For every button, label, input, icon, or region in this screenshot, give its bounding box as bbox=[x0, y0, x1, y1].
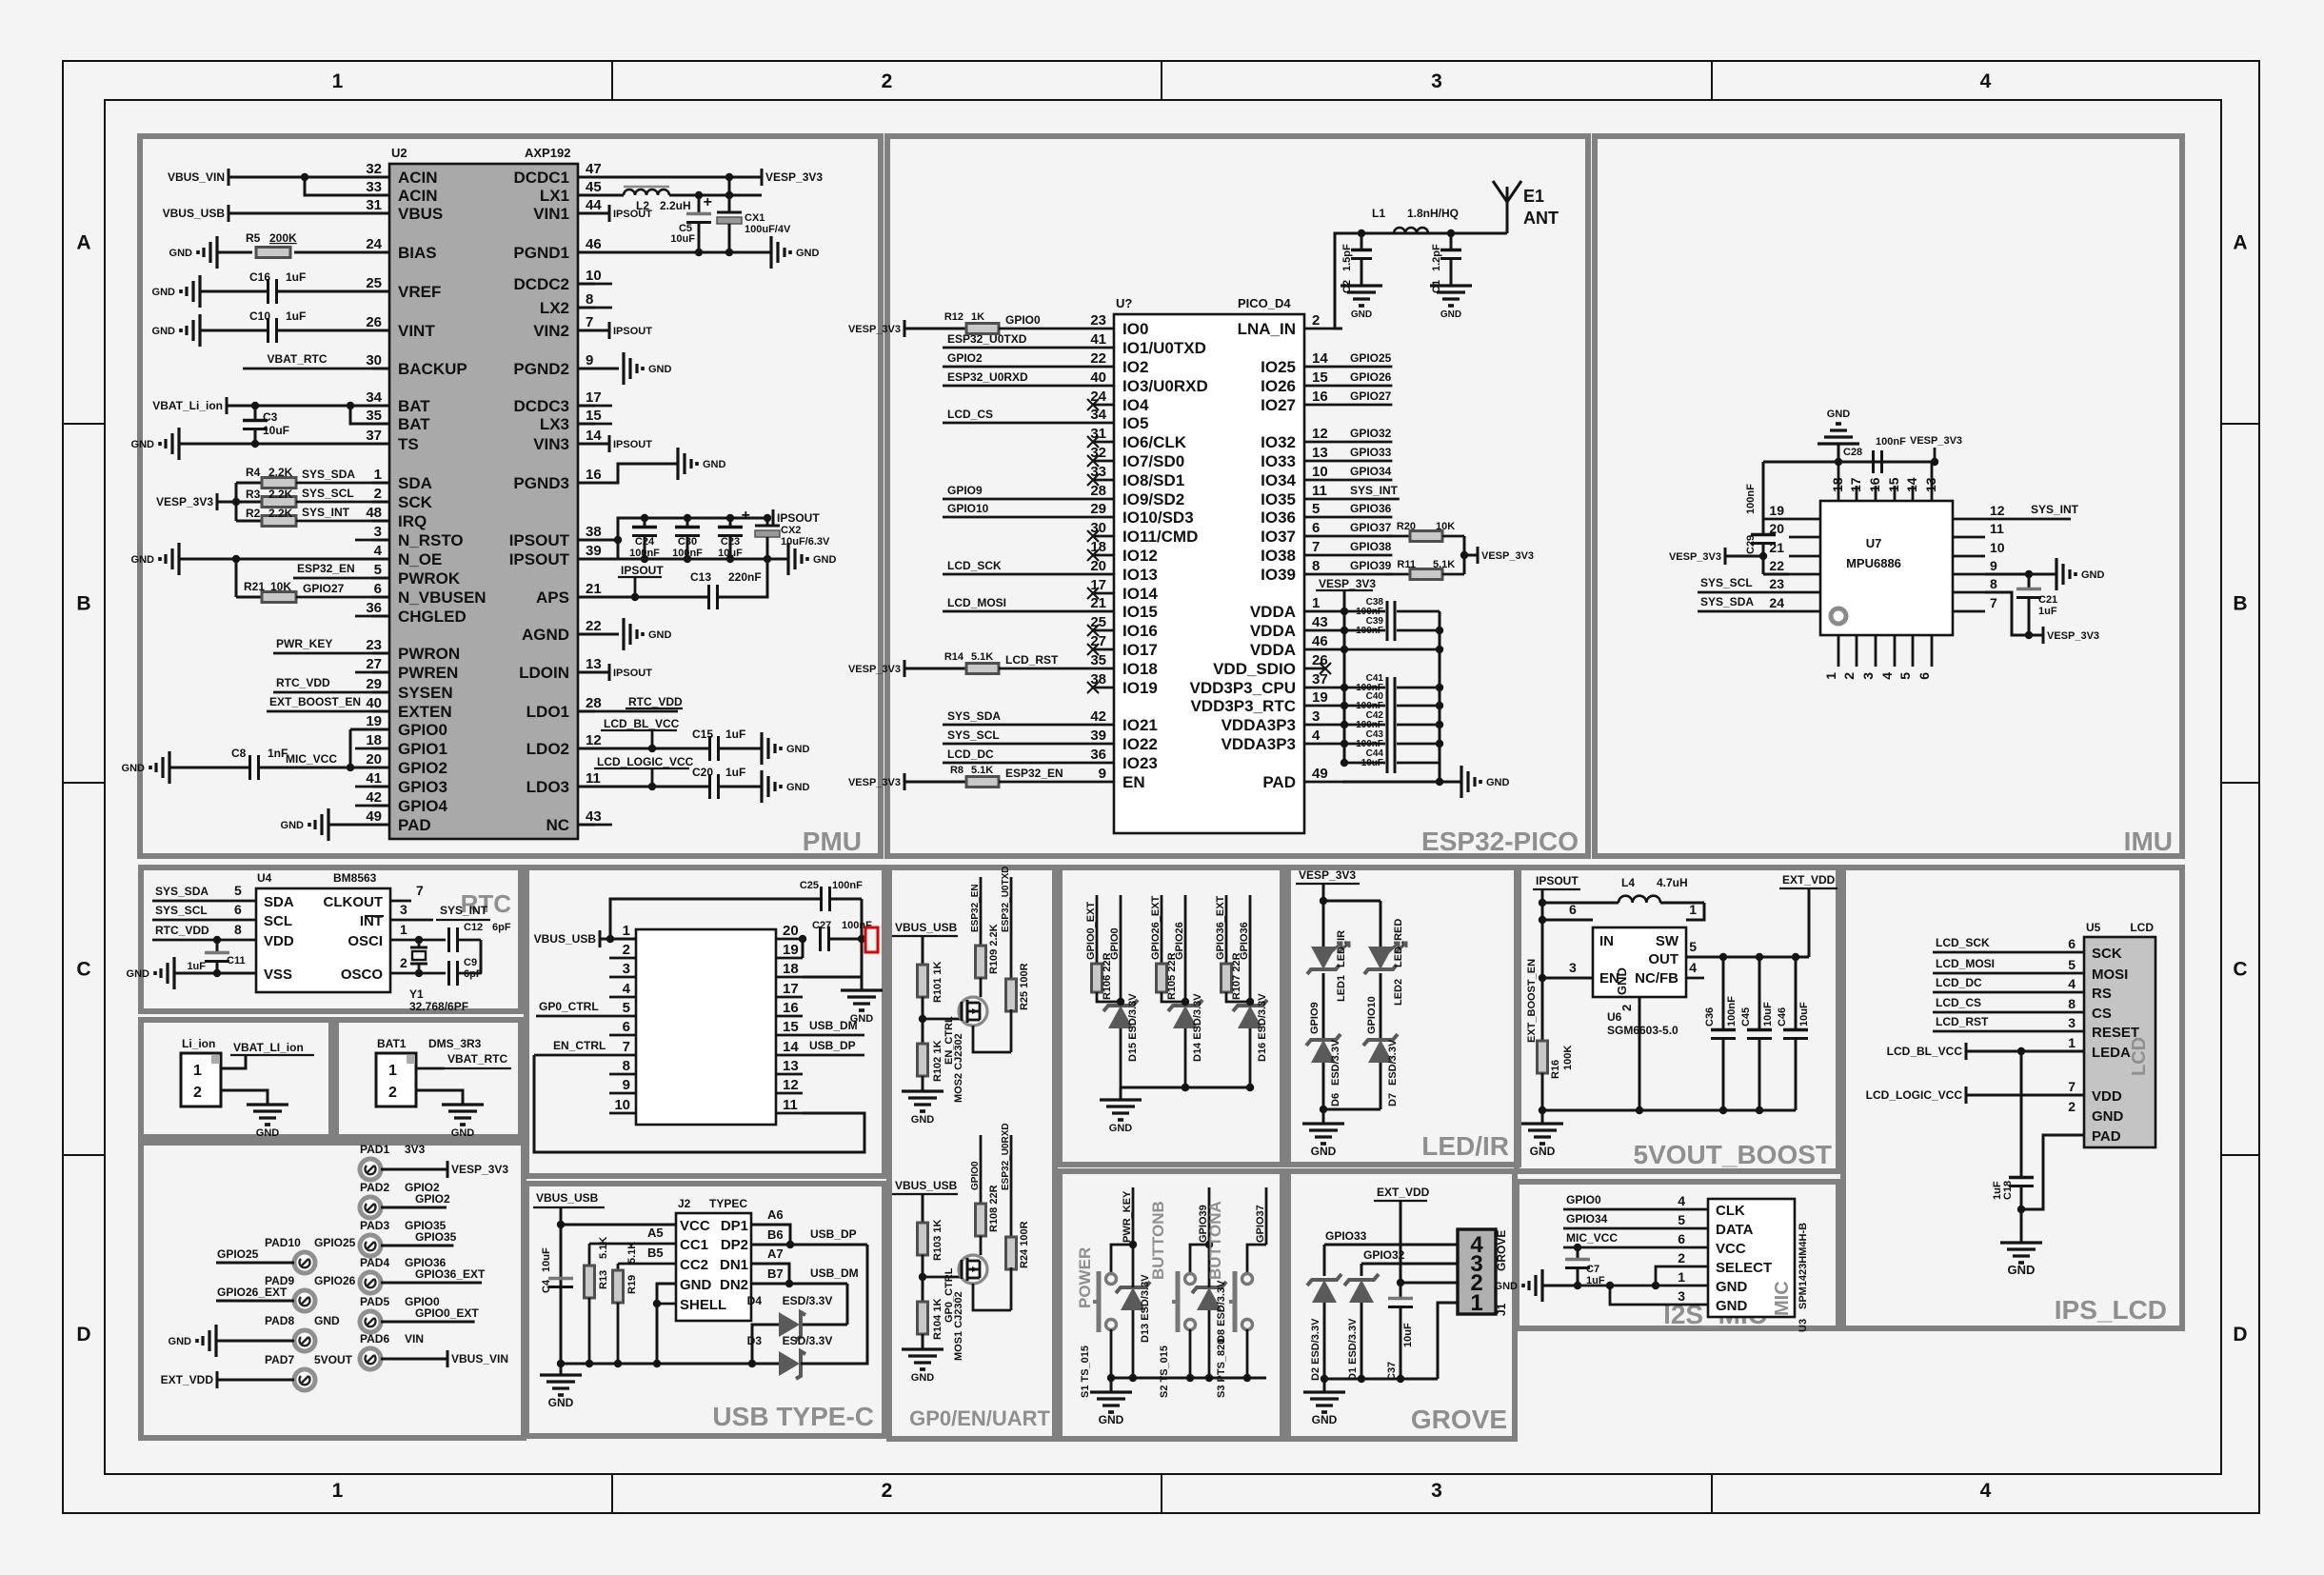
wire gnd to R5 bbox=[217, 251, 252, 254]
svg-text:R101 1K: R101 1K bbox=[932, 962, 944, 1003]
svg-text:LDO2: LDO2 bbox=[526, 740, 569, 758]
svg-text:2: 2 bbox=[1312, 312, 1320, 329]
capacitor C23 10uF bbox=[729, 518, 732, 527]
svg-text:12: 12 bbox=[783, 1077, 799, 1093]
svg-text:12: 12 bbox=[586, 732, 602, 748]
svg-text:10uF: 10uF bbox=[1402, 1323, 1414, 1347]
svg-text:30: 30 bbox=[366, 352, 382, 369]
svg-text:C36: C36 bbox=[1704, 1007, 1716, 1027]
svg-text:SYS_INT: SYS_INT bbox=[2031, 503, 2079, 516]
svg-text:GND: GND bbox=[1311, 1145, 1337, 1158]
svg-text:38: 38 bbox=[1090, 671, 1106, 688]
wire LDO2 row bbox=[595, 748, 709, 750]
svg-text:3: 3 bbox=[1431, 1480, 1442, 1502]
U2 pin 49 PAD bbox=[372, 824, 389, 827]
svg-text:PMU: PMU bbox=[803, 827, 862, 856]
capacitor CX1 100uF/4V bbox=[728, 195, 731, 211]
U2 pin 3 N_RSTO bbox=[372, 539, 389, 542]
U2 pin10 stub bbox=[595, 283, 612, 286]
svg-text:B6: B6 bbox=[767, 1227, 784, 1242]
J1 pin 3 bbox=[1446, 1263, 1458, 1266]
svg-text:IPSOUT: IPSOUT bbox=[613, 326, 652, 337]
svg-text:2: 2 bbox=[374, 486, 382, 502]
svg-text:26: 26 bbox=[366, 314, 382, 330]
svg-text:PWRON: PWRON bbox=[398, 645, 460, 663]
svg-text:MIC_VCC: MIC_VCC bbox=[1566, 1231, 1618, 1245]
svg-text:20: 20 bbox=[366, 751, 382, 768]
svg-text:C: C bbox=[2233, 959, 2247, 981]
Buttons module box bbox=[1060, 1171, 1282, 1439]
U2 pin 16 PGND3 bbox=[578, 482, 595, 485]
ground at USB TYPE-C bbox=[560, 1364, 563, 1375]
capacitor C11 1uF bbox=[216, 940, 219, 952]
svg-text:PGND1: PGND1 bbox=[513, 244, 569, 262]
svg-text:GND: GND bbox=[680, 1277, 712, 1293]
net VBUS_VIN flag bbox=[447, 1350, 449, 1367]
wire IPSOUT to IN pin6 bbox=[1542, 919, 1593, 922]
svg-text:GPIO36_EXT: GPIO36_EXT bbox=[415, 1267, 486, 1281]
svg-text:D4: D4 bbox=[747, 1294, 763, 1307]
svg-text:VDD3P3_RTC: VDD3P3_RTC bbox=[1190, 697, 1296, 715]
svg-text:20: 20 bbox=[783, 923, 799, 939]
svg-text:GND: GND bbox=[1827, 409, 1851, 420]
svg-text:GPIO2: GPIO2 bbox=[415, 1192, 450, 1206]
svg-text:LCD_BL_VCC: LCD_BL_VCC bbox=[604, 717, 680, 730]
svg-text:VDD: VDD bbox=[264, 933, 294, 949]
wire PAD6 to VBUS_VIN bbox=[381, 1358, 447, 1361]
svg-text:ACIN: ACIN bbox=[398, 169, 438, 187]
svg-text:15: 15 bbox=[586, 408, 602, 424]
svg-text:IPSOUT: IPSOUT bbox=[509, 550, 570, 568]
svg-text:GPIO32: GPIO32 bbox=[1350, 427, 1392, 440]
capacitor C36 100nF bbox=[1711, 1028, 1736, 1031]
svg-text:LED1: LED1 bbox=[1336, 975, 1347, 1002]
svg-text:DCDC2: DCDC2 bbox=[513, 275, 569, 293]
diode D4 ESD/3.3V bbox=[801, 1324, 847, 1326]
wire right rail vertical bbox=[861, 899, 864, 977]
svg-text:GND: GND bbox=[169, 1336, 192, 1347]
svg-text:IO38: IO38 bbox=[1261, 547, 1296, 565]
wire divider vertical (EN_CTRL) bbox=[922, 936, 924, 967]
svg-text:IO7/SD0: IO7/SD0 bbox=[1122, 452, 1184, 470]
svg-text:5.1K: 5.1K bbox=[1433, 559, 1455, 570]
wire gnd to C10 bbox=[200, 329, 268, 332]
wire PAD7 to EXT_VDD bbox=[217, 1379, 294, 1382]
transistor MOS2 CJ2302 bbox=[959, 997, 987, 1026]
svg-text:5: 5 bbox=[1312, 501, 1320, 517]
IC U2 AXP192 body bbox=[389, 164, 578, 839]
svg-text:USB_DP: USB_DP bbox=[809, 1039, 856, 1052]
svg-text:24: 24 bbox=[1769, 595, 1784, 610]
U2 pin 36 CHGLED bbox=[372, 615, 389, 618]
LED LED2 LED_RED bbox=[1368, 947, 1393, 969]
diode D2 ESD/3.3V bbox=[1312, 1280, 1337, 1303]
svg-text:1: 1 bbox=[332, 1480, 344, 1502]
wire C27 to right rail bbox=[829, 938, 862, 941]
svg-text:A7: A7 bbox=[767, 1246, 784, 1261]
net VBAT_Li_ion flag bbox=[226, 397, 228, 414]
net LCD_BL_VCC flag bbox=[1965, 1043, 1968, 1060]
svg-text:100nF: 100nF bbox=[1726, 996, 1738, 1027]
svg-text:100nF: 100nF bbox=[832, 880, 863, 891]
svg-text:10: 10 bbox=[586, 268, 602, 284]
diode D13 ESD/3.3V bbox=[1121, 1287, 1145, 1310]
antenna E1 bbox=[1506, 202, 1509, 233]
svg-text:2: 2 bbox=[1678, 1250, 1685, 1266]
svg-text:B: B bbox=[2233, 593, 2247, 615]
svg-text:44: 44 bbox=[586, 197, 602, 213]
svg-text:1uF: 1uF bbox=[1992, 1181, 2003, 1200]
resistor R2 2.2K bbox=[262, 516, 296, 527]
wire VDDA row 642 bbox=[1344, 610, 1385, 613]
svg-text:L4: L4 bbox=[1621, 876, 1635, 889]
U2 pin 5 PWROK bbox=[372, 577, 389, 580]
svg-text:VBAT_LI_ion: VBAT_LI_ion bbox=[233, 1041, 304, 1054]
wire SELECT jog bbox=[1656, 1266, 1708, 1286]
svg-text:33: 33 bbox=[1090, 464, 1106, 480]
svg-text:9: 9 bbox=[1990, 558, 1997, 573]
svg-text:GND: GND bbox=[256, 1127, 280, 1139]
wire L2 to caps bbox=[669, 194, 762, 197]
USB IC right pin 17 bbox=[776, 996, 803, 999]
svg-text:2: 2 bbox=[1841, 672, 1857, 680]
svg-text:33: 33 bbox=[366, 179, 382, 195]
svg-text:ESD/3.3V: ESD/3.3V bbox=[1387, 1039, 1399, 1086]
svg-text:GPIO1: GPIO1 bbox=[398, 740, 447, 758]
wire IPSOUT to EN pin3 bbox=[1542, 977, 1593, 980]
svg-text:LCD: LCD bbox=[2129, 1037, 2150, 1076]
wire PAD5 to GPIO0_EXT bbox=[381, 1321, 475, 1324]
U2 pin 29 SYSEN bbox=[372, 691, 389, 694]
svg-text:22: 22 bbox=[1769, 558, 1784, 573]
svg-text:23: 23 bbox=[1090, 312, 1106, 329]
capacitor C12 6pF bbox=[447, 927, 450, 952]
U2 pin15 stub bbox=[595, 423, 612, 426]
net LCD_LOGIC_VCC flag bbox=[1965, 1087, 1968, 1104]
svg-text:SYS_SCL: SYS_SCL bbox=[302, 487, 354, 500]
wire PAD1 to VESP_3V3 bbox=[381, 1168, 447, 1171]
wire source to R24 bbox=[1010, 1267, 1013, 1310]
svg-text:30: 30 bbox=[1090, 520, 1106, 536]
svg-text:IO5: IO5 bbox=[1122, 414, 1148, 432]
svg-text:SCK: SCK bbox=[398, 493, 433, 511]
svg-text:LDO3: LDO3 bbox=[526, 778, 569, 796]
svg-text:13: 13 bbox=[1923, 477, 1938, 492]
capacitor C8 1nF bbox=[248, 755, 251, 780]
svg-text:PWR_KEY: PWR_KEY bbox=[276, 637, 332, 650]
svg-text:6: 6 bbox=[234, 902, 242, 917]
wire VDDA row 682 bbox=[1344, 648, 1440, 651]
svg-text:GPIO2: GPIO2 bbox=[398, 759, 447, 777]
red annotation box bbox=[865, 927, 878, 952]
BAT1 module box bbox=[336, 1020, 521, 1137]
capacitor C9 6pF bbox=[447, 961, 450, 986]
capacitor C20 1uF bbox=[708, 774, 711, 799]
svg-text:C16: C16 bbox=[249, 270, 270, 284]
svg-text:29: 29 bbox=[1090, 501, 1106, 517]
svg-text:VINT: VINT bbox=[398, 322, 435, 340]
svg-text:DCDC3: DCDC3 bbox=[513, 397, 569, 415]
resistor R108 22R bbox=[976, 1204, 986, 1236]
svg-text:ACIN: ACIN bbox=[398, 187, 438, 205]
svg-text:BAT: BAT bbox=[398, 415, 430, 433]
svg-text:5.1K: 5.1K bbox=[598, 1237, 609, 1259]
svg-text:1: 1 bbox=[332, 70, 344, 92]
wire pin20 to C27 bbox=[799, 935, 806, 943]
svg-text:VESP_3V3: VESP_3V3 bbox=[156, 495, 213, 508]
svg-text:19: 19 bbox=[1769, 503, 1784, 518]
pad PAD8 bbox=[294, 1330, 315, 1351]
svg-text:21: 21 bbox=[1090, 595, 1106, 611]
U2 pin 40 EXTEN bbox=[372, 710, 389, 713]
U7 top pin 14 bbox=[1912, 486, 1915, 501]
svg-text:IO17: IO17 bbox=[1122, 641, 1158, 659]
svg-text:IO39: IO39 bbox=[1261, 566, 1296, 584]
ground at ESP32 PAD bbox=[1460, 766, 1462, 798]
resistor R12 1K bbox=[904, 328, 966, 330]
ground above U7 bbox=[1817, 442, 1859, 445]
svg-text:100nF: 100nF bbox=[842, 920, 872, 931]
svg-text:EXTEN: EXTEN bbox=[398, 703, 452, 721]
USB controller module box bbox=[526, 867, 884, 1176]
diode D1 ESD/3.3V bbox=[1349, 1280, 1374, 1303]
svg-text:32: 32 bbox=[366, 161, 382, 177]
capacitor C42 100nF bbox=[1386, 714, 1389, 735]
svg-text:GND: GND bbox=[1351, 309, 1372, 320]
svg-text:7: 7 bbox=[1312, 539, 1320, 555]
svg-text:D: D bbox=[76, 1324, 90, 1346]
IC J2 TYPEC body bbox=[676, 1213, 751, 1321]
svg-text:MIC_VCC: MIC_VCC bbox=[286, 752, 337, 766]
svg-text:VESP_3V3: VESP_3V3 bbox=[765, 170, 823, 184]
U7 top pin 13 bbox=[1931, 462, 1934, 501]
svg-text:IO3/U0RXD: IO3/U0RXD bbox=[1122, 377, 1208, 395]
svg-text:TS: TS bbox=[398, 435, 419, 453]
svg-text:GROVE: GROVE bbox=[1411, 1405, 1507, 1434]
svg-text:GPIO34: GPIO34 bbox=[1566, 1212, 1608, 1226]
svg-text:IRQ: IRQ bbox=[398, 512, 427, 530]
wire switch S3 PTS_820 to rail bbox=[1246, 1329, 1249, 1378]
wire IPSOUT rail bbox=[1541, 889, 1544, 1030]
svg-text:VBUS_USB: VBUS_USB bbox=[895, 1179, 958, 1192]
svg-text:8: 8 bbox=[234, 922, 242, 937]
U2 pin 41 GPIO3 bbox=[372, 786, 389, 788]
IC U7 MPU6886 body bbox=[1820, 501, 1953, 635]
svg-text:VESP_3V3: VESP_3V3 bbox=[1910, 435, 1962, 447]
U4 pin2 OSCO wire bbox=[390, 972, 446, 975]
wire gnd to C16 bbox=[200, 290, 268, 293]
svg-text:EXT_VDD: EXT_VDD bbox=[1377, 1186, 1430, 1199]
switch S1 TS_015 bbox=[1106, 1274, 1117, 1285]
svg-text:C8: C8 bbox=[231, 747, 247, 760]
svg-text:VIN1: VIN1 bbox=[533, 205, 569, 223]
svg-text:APS: APS bbox=[536, 588, 569, 607]
resistor R8 5.1K bbox=[904, 781, 966, 784]
U4 pin3 INT wire bbox=[390, 919, 433, 922]
svg-text:R3: R3 bbox=[246, 488, 261, 501]
capacitor C39 100nF bbox=[1386, 620, 1389, 641]
svg-text:BAT1: BAT1 bbox=[377, 1037, 407, 1050]
svg-text:LX2: LX2 bbox=[540, 299, 569, 317]
wire gnd to PAD bbox=[328, 824, 372, 827]
U2 pin 26 VINT bbox=[372, 329, 389, 332]
svg-text:49: 49 bbox=[366, 808, 382, 825]
svg-text:MOS2 CJ2302: MOS2 CJ2302 bbox=[953, 1033, 964, 1103]
frame row divider bbox=[63, 1154, 105, 1156]
capacitor C30 100nF bbox=[686, 518, 689, 527]
U2 pin 32 ACIN bbox=[372, 176, 389, 179]
svg-text:DP2: DP2 bbox=[721, 1237, 748, 1253]
svg-text:22: 22 bbox=[586, 618, 602, 634]
svg-text:R14: R14 bbox=[944, 651, 964, 663]
wire U7 pin9 to gnd bbox=[1985, 573, 2056, 576]
svg-text:GPIO0: GPIO0 bbox=[970, 1161, 981, 1190]
svg-text:24: 24 bbox=[366, 236, 382, 252]
svg-text:18: 18 bbox=[366, 732, 382, 748]
svg-text:23: 23 bbox=[1769, 576, 1784, 591]
svg-text:IO2: IO2 bbox=[1122, 358, 1148, 376]
capacitor C4 10uF bbox=[548, 1277, 573, 1280]
svg-text:IO4: IO4 bbox=[1122, 396, 1149, 414]
svg-text:C: C bbox=[76, 959, 90, 981]
svg-text:IO11/CMD: IO11/CMD bbox=[1122, 528, 1198, 546]
svg-text:SW: SW bbox=[1656, 933, 1679, 949]
pad PAD6 bbox=[360, 1348, 381, 1369]
wire VBUS_USB to pin1 bbox=[600, 938, 636, 941]
svg-text:IO6/CLK: IO6/CLK bbox=[1122, 433, 1187, 451]
svg-text:RESET: RESET bbox=[2092, 1025, 2139, 1041]
wire J2 DP2 USB_DP bbox=[751, 1244, 867, 1246]
svg-text:GND: GND bbox=[169, 248, 193, 259]
capacitor CX2 10uF/6.3V bbox=[766, 518, 769, 525]
pad PAD7 bbox=[294, 1369, 315, 1390]
capacitor C38 100nF bbox=[1386, 601, 1389, 622]
wire GPIO33 row to connector pin4 bbox=[1324, 1244, 1446, 1246]
svg-text:U6: U6 bbox=[1607, 1010, 1622, 1024]
svg-text:20: 20 bbox=[1090, 558, 1106, 574]
svg-text:39: 39 bbox=[1090, 728, 1106, 744]
svg-text:36: 36 bbox=[1090, 747, 1106, 763]
svg-text:OSCO: OSCO bbox=[341, 967, 384, 983]
svg-text:LDO1: LDO1 bbox=[526, 703, 569, 721]
net VESP_3V3 flag at IO0 bbox=[904, 320, 906, 337]
U2 pin36 stub bbox=[355, 615, 372, 618]
net VBUS_USB flag bbox=[228, 205, 230, 222]
svg-text:LED2: LED2 bbox=[1393, 979, 1404, 1006]
svg-text:VBUS_VIN: VBUS_VIN bbox=[168, 170, 225, 184]
svg-text:5.1K: 5.1K bbox=[626, 1242, 638, 1264]
U2 pin42 stub bbox=[355, 805, 372, 807]
U7 right pin 10 bbox=[1953, 555, 1985, 558]
junction at diode top bbox=[1182, 998, 1189, 1006]
svg-text:5VOUT_BOOST: 5VOUT_BOOST bbox=[1634, 1140, 1832, 1169]
resistor R5 200K bbox=[256, 248, 290, 258]
svg-text:14: 14 bbox=[1312, 350, 1328, 367]
svg-text:GPIO32: GPIO32 bbox=[1363, 1248, 1405, 1262]
wire R107 to diode bbox=[1226, 992, 1250, 1002]
wire oscillator right rail bbox=[480, 940, 483, 973]
U2 pin 2 SCK bbox=[372, 501, 389, 504]
svg-text:TYPEC: TYPEC bbox=[709, 1197, 747, 1210]
svg-text:LX1: LX1 bbox=[540, 187, 569, 205]
svg-text:IPSOUT: IPSOUT bbox=[777, 511, 820, 525]
svg-text:R16: R16 bbox=[1550, 1060, 1561, 1079]
svg-text:100nF: 100nF bbox=[1745, 484, 1757, 514]
wire R106 to diode bbox=[1097, 992, 1121, 1002]
U2 pin 9 PGND2 bbox=[578, 368, 595, 370]
pad PAD3 bbox=[360, 1235, 381, 1256]
svg-text:IO15: IO15 bbox=[1122, 603, 1158, 621]
svg-text:N_VBUSEN: N_VBUSEN bbox=[398, 588, 487, 607]
svg-text:GPIO39: GPIO39 bbox=[1350, 559, 1392, 572]
wire GPIO0 to CLK bbox=[1563, 1208, 1708, 1211]
U2 pin 38 IPSOUT bbox=[578, 539, 595, 542]
U2 pin 39 IPSOUT bbox=[578, 558, 595, 561]
U7 top pin 18 bbox=[1837, 462, 1840, 501]
ground at VREF bbox=[198, 275, 201, 308]
wire GPIO0 vertical bbox=[980, 1135, 983, 1204]
wire VBUS_USB to VBUS bbox=[228, 212, 372, 215]
svg-text:43: 43 bbox=[1312, 614, 1328, 630]
USB IC right pin 19 bbox=[776, 957, 803, 960]
wire PAD10 to GPIO25 bbox=[216, 1262, 294, 1265]
svg-text:GND: GND bbox=[703, 459, 726, 470]
capacitor C16 1uF bbox=[267, 279, 269, 304]
svg-text:ESD/3.3V: ESD/3.3V bbox=[783, 1334, 833, 1347]
svg-text:IN: IN bbox=[1599, 933, 1614, 949]
wire C13 to gnd rail bbox=[718, 559, 767, 597]
U2 pin 7 VIN2 bbox=[578, 329, 595, 332]
wire VESP to LED rail bbox=[1322, 884, 1325, 901]
diode D6 ESD/3.3V bbox=[1311, 1040, 1336, 1063]
svg-text:GND: GND bbox=[1716, 1298, 1748, 1314]
svg-text:GPIO25: GPIO25 bbox=[217, 1247, 259, 1261]
wire R20 R11 join to VESP_3V3 bbox=[1463, 536, 1466, 574]
wire BAT1 pin2 to gnd bbox=[416, 1090, 463, 1105]
svg-text:4: 4 bbox=[2068, 976, 2076, 991]
svg-text:GND: GND bbox=[152, 287, 176, 298]
svg-text:GPIO26_EXT: GPIO26_EXT bbox=[1150, 895, 1162, 960]
svg-text:E1: E1 bbox=[1523, 187, 1544, 206]
U7 bottom pin 6 bbox=[1931, 635, 1934, 667]
crystal Y1 32.768 bbox=[418, 940, 421, 947]
svg-text:3: 3 bbox=[1569, 960, 1577, 975]
svg-text:1uF: 1uF bbox=[2038, 606, 2057, 617]
svg-text:PAD10: PAD10 bbox=[265, 1236, 301, 1249]
U2 pin 28 LDO1 bbox=[578, 710, 595, 713]
svg-text:8: 8 bbox=[586, 291, 593, 308]
wire MIC_VCC to VCC bbox=[1563, 1246, 1708, 1249]
capacitor C13 220nF bbox=[707, 585, 710, 609]
svg-text:VDDA: VDDA bbox=[1250, 641, 1296, 659]
wire D15 to rail bbox=[1120, 1028, 1122, 1087]
svg-text:1: 1 bbox=[623, 923, 630, 939]
U7 pin1 marker circle bbox=[1831, 608, 1846, 624]
svg-text:NC/FB: NC/FB bbox=[1635, 970, 1678, 987]
svg-text:SCL: SCL bbox=[264, 913, 292, 929]
svg-text:SELECT: SELECT bbox=[1716, 1260, 1772, 1276]
wire GPIO33 to D2 bbox=[1323, 1245, 1326, 1276]
capacitor C41 100nF bbox=[1386, 677, 1389, 698]
svg-text:MOS1 CJ2302: MOS1 CJ2302 bbox=[953, 1291, 964, 1361]
svg-text:18: 18 bbox=[1830, 477, 1845, 492]
svg-text:VESP_3V3: VESP_3V3 bbox=[1319, 577, 1376, 590]
svg-text:USB_DM: USB_DM bbox=[809, 1019, 858, 1032]
wire U7 pin8 to VESP_3V3 bbox=[1985, 592, 2043, 635]
wire GND SHELL join bbox=[657, 1284, 676, 1364]
svg-text:R108 22R: R108 22R bbox=[988, 1185, 1000, 1232]
svg-text:GPIO4: GPIO4 bbox=[398, 797, 448, 815]
